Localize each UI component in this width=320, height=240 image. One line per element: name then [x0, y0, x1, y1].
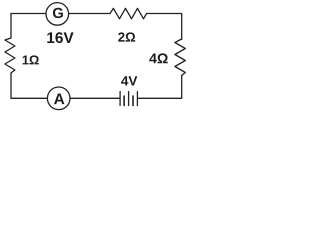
resistor R2 2-ohm zigzag — [110, 8, 147, 18]
wire right-bottom segment — [138, 76, 182, 99]
battery B1 4V cells — [120, 92, 137, 106]
galvanometer G1 circle — [46, 3, 69, 26]
ammeter A1 circle — [47, 87, 70, 110]
value label 4V — [121, 76, 137, 85]
wire bottom-middle segment — [70, 97, 119, 99]
resistor R3 4-ohm zigzag — [175, 39, 185, 76]
value label 16V — [47, 32, 73, 43]
value label 1Ω — [23, 55, 39, 64]
meter letter G — [53, 8, 63, 18]
wire top-left segment — [11, 14, 46, 39]
wire top-middle segment — [69, 13, 110, 15]
value label 4Ω — [149, 53, 167, 63]
value label 2Ω — [118, 32, 135, 41]
meter letter A — [54, 94, 64, 105]
resistor R1 1-ohm zigzag — [5, 38, 15, 73]
wire top-right segment — [147, 14, 182, 40]
wire bottom-left segment — [11, 73, 47, 98]
